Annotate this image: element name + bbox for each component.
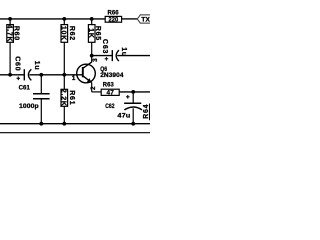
wire collector to C63	[92, 55, 113, 57]
svg-text:4.7K: 4.7K	[6, 25, 13, 43]
resistor R62	[60, 25, 75, 43]
node collector junction	[90, 54, 94, 58]
wire R63 right to edge	[119, 91, 150, 93]
capacitor C63	[101, 39, 127, 63]
wire R62 bottom lead	[63, 42, 65, 75]
svg-text:2.2K: 2.2K	[60, 89, 67, 107]
wire R60 top lead	[9, 19, 11, 25]
node junction R62 top	[62, 17, 66, 21]
node junction C61 bottom	[39, 122, 43, 126]
svg-text:+: +	[105, 56, 109, 63]
frame border line	[0, 132, 150, 134]
node junction base/divider	[62, 73, 66, 77]
svg-text:R65: R65	[94, 26, 101, 41]
svg-text:C62: C62	[105, 103, 115, 110]
wire emitter to R63	[92, 91, 102, 93]
svg-text:R64: R64	[143, 104, 150, 119]
node junction R60 top	[8, 17, 12, 21]
wire R60 bottom lead	[9, 42, 11, 75]
node junction C62 top	[131, 90, 135, 94]
wire C63 right lead	[117, 55, 150, 57]
node junction R60 bottom	[8, 73, 12, 77]
wire top rail	[0, 18, 105, 20]
svg-text:1000p: 1000p	[19, 103, 39, 110]
wire R61 top lead	[63, 75, 65, 90]
svg-text:C63: C63	[101, 39, 108, 54]
wire input line left	[0, 74, 24, 76]
wire C60 right lead to base	[29, 74, 82, 76]
svg-text:R63: R63	[103, 82, 114, 89]
resistor R63	[101, 82, 119, 97]
wire emitter down	[91, 83, 93, 92]
svg-text:C61: C61	[19, 85, 31, 92]
resistor R66	[105, 9, 121, 23]
wire R65 top lead	[91, 19, 93, 25]
svg-text:R66: R66	[107, 9, 119, 16]
wire R62 top lead	[63, 19, 65, 25]
svg-text:TX: TX	[141, 17, 150, 24]
wire R66 right lead	[122, 18, 138, 20]
global label TX	[137, 15, 152, 24]
svg-text:47: 47	[107, 90, 115, 97]
svg-text:R60: R60	[13, 26, 20, 41]
resistor R65	[87, 25, 101, 43]
svg-text:+: +	[126, 94, 130, 101]
svg-text:C60: C60	[14, 56, 21, 71]
capacitor C62	[105, 92, 142, 124]
svg-text:R61: R61	[68, 90, 75, 105]
svg-text:R62: R62	[68, 26, 75, 41]
svg-text:1u: 1u	[33, 61, 40, 71]
resistor R61	[60, 89, 75, 107]
svg-text:+: +	[16, 75, 20, 82]
svg-text:220: 220	[109, 16, 119, 23]
node junction C61 tap	[39, 73, 43, 77]
wire ground rail	[0, 123, 150, 125]
transistor Q6	[77, 62, 124, 83]
resistor R64 (cut off at right edge)	[143, 104, 150, 121]
svg-text:10K: 10K	[60, 26, 67, 41]
svg-text:3: 3	[92, 58, 99, 62]
node junction R61 bottom	[62, 122, 66, 126]
svg-text:2N3904: 2N3904	[100, 72, 124, 79]
svg-text:1K: 1K	[87, 28, 94, 38]
svg-text:1: 1	[72, 75, 76, 82]
resistor R60	[6, 25, 20, 43]
wire R65 bottom lead to collector	[91, 42, 93, 62]
capacitor C60	[14, 56, 40, 82]
svg-text:47u: 47u	[117, 112, 130, 119]
node junction R65 top	[90, 17, 94, 21]
capacitor C61	[19, 75, 50, 124]
node junction C62 bottom	[131, 122, 135, 126]
wire R61 bottom lead	[63, 106, 65, 123]
